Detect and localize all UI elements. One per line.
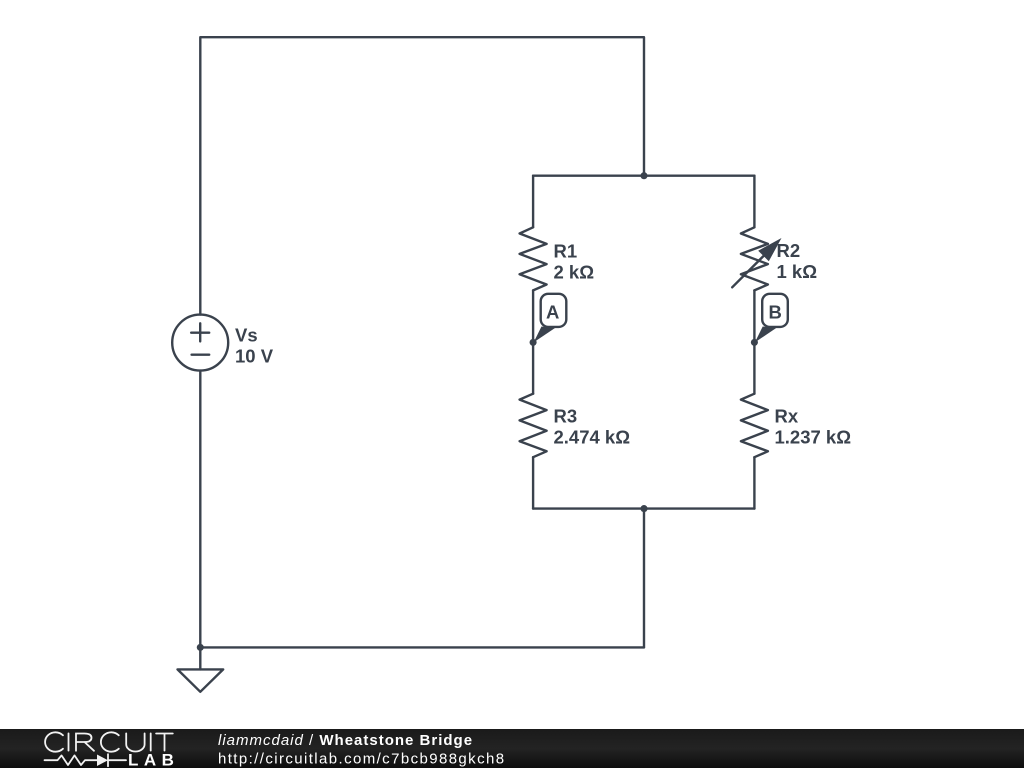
svg-text:1.237 kΩ: 1.237 kΩ [775, 427, 852, 448]
node junction dot bottom center [640, 505, 647, 512]
wire right branch upper [753, 176, 755, 228]
wire center stem down [643, 509, 645, 648]
label R1 value [554, 240, 595, 282]
svg-text:Vs: Vs [235, 324, 258, 345]
wire left branch middle [532, 290, 534, 393]
wire left branch lower [532, 457, 534, 508]
wire right branch lower [753, 457, 755, 508]
wire right branch middle [753, 290, 755, 393]
CircuitLab logo resistor-diode symbol [45, 754, 127, 766]
resistor R1 [520, 227, 547, 290]
voltage source Vs [172, 315, 228, 371]
svg-text:R1: R1 [554, 240, 578, 261]
svg-text:A: A [546, 302, 559, 323]
CircuitLab logo wordmark [45, 732, 173, 751]
ground [178, 647, 224, 691]
svg-text:10 V: 10 V [235, 346, 274, 367]
node junction dot bottom left [197, 644, 204, 651]
svg-text:R3: R3 [554, 406, 578, 427]
svg-text:R2: R2 [777, 240, 801, 261]
node junction dot top center [640, 172, 647, 179]
label R3 value [554, 406, 631, 448]
wire bridge bottom rail [533, 507, 754, 509]
node B flag [751, 294, 788, 346]
svg-text:LAB: LAB [128, 751, 179, 768]
resistor R2 variable [732, 227, 781, 290]
svg-text:2 kΩ: 2 kΩ [554, 261, 595, 282]
resistor R3 [520, 394, 547, 458]
svg-text:1 kΩ: 1 kΩ [777, 261, 818, 282]
wire bridge top rail [533, 174, 754, 176]
wire source bottom [199, 371, 201, 648]
svg-text:liammcdaid / Wheatstone Bridge: liammcdaid / Wheatstone Bridge [218, 732, 473, 749]
svg-text:B: B [769, 302, 782, 323]
wire top loop from Vs to bridge top [200, 37, 644, 314]
label Vs value [235, 324, 274, 366]
resistor Rx [741, 394, 768, 458]
footer bar [0, 729, 1024, 768]
label Rx value [775, 406, 852, 448]
svg-text:http://circuitlab.com/c7bcb988: http://circuitlab.com/c7bcb988gkch8 [218, 751, 505, 768]
svg-text:2.474 kΩ: 2.474 kΩ [554, 427, 631, 448]
svg-text:Rx: Rx [775, 406, 799, 427]
label R2 value [777, 240, 818, 282]
wire left branch upper [532, 176, 534, 228]
node A flag [530, 294, 567, 346]
wire bottom return to source [200, 646, 644, 648]
